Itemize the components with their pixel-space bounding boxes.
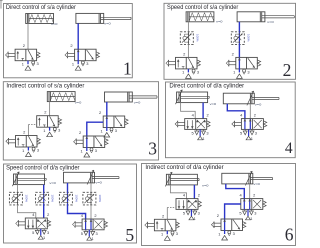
svg-text:5: 5 (192, 130, 194, 135)
svg-text:Direct control of d/a cylinder: Direct control of d/a cylinder (169, 83, 244, 90)
svg-text:3: 3 (233, 231, 235, 236)
svg-text:2: 2 (198, 193, 200, 198)
svg-text:v=0: v=0 (75, 100, 82, 104)
svg-text:1: 1 (161, 232, 163, 237)
svg-text:1: 1 (233, 70, 235, 75)
svg-text:2: 2 (47, 212, 49, 217)
svg-text:v=0: v=0 (253, 182, 260, 186)
svg-text:1: 1 (22, 62, 24, 67)
svg-text:3: 3 (247, 69, 249, 74)
svg-text:100%: 100% (246, 34, 250, 42)
svg-text:5: 5 (32, 230, 34, 235)
svg-text:3: 3 (197, 69, 199, 74)
svg-text:2: 2 (207, 113, 209, 118)
svg-text:100%: 100% (98, 195, 102, 203)
svg-text:v=0: v=0 (104, 21, 111, 25)
svg-text:1: 1 (81, 148, 83, 153)
svg-text:3: 3 (198, 210, 200, 215)
svg-text:6: 6 (285, 224, 294, 244)
svg-text:1: 1 (194, 216, 196, 221)
svg-text:Indirect control of s/a cylind: Indirect control of s/a cylinder (6, 82, 84, 89)
svg-text:1: 1 (202, 136, 204, 141)
svg-text:5: 5 (183, 210, 185, 215)
svg-text:2: 2 (254, 113, 256, 118)
svg-text:3: 3 (86, 61, 88, 66)
svg-text:3: 3 (37, 147, 39, 152)
svg-text:1: 1 (43, 128, 45, 133)
svg-text:Speed control of d/a cylinder: Speed control of d/a cylinder (6, 165, 79, 172)
svg-text:3: 3 (95, 148, 97, 153)
svg-text:1: 1 (251, 136, 253, 141)
svg-text:3: 3 (206, 130, 208, 135)
svg-text:3: 3 (255, 130, 257, 135)
svg-text:3: 3 (254, 210, 256, 215)
svg-text:v=0: v=0 (95, 181, 102, 185)
svg-text:2: 2 (253, 193, 255, 198)
svg-text:Indirect control of d/a cylind: Indirect control of d/a cylinder (145, 164, 223, 171)
svg-text:v=0: v=0 (255, 103, 262, 107)
svg-text:4: 4 (285, 140, 293, 157)
svg-text:5: 5 (125, 225, 134, 245)
svg-text:100%: 100% (51, 195, 55, 203)
svg-text:v=0: v=0 (49, 181, 56, 185)
svg-text:1: 1 (72, 62, 74, 67)
svg-text:1: 1 (218, 231, 220, 236)
svg-text:1: 1 (123, 59, 132, 79)
svg-text:1: 1 (182, 70, 184, 75)
svg-text:v=0: v=0 (51, 22, 58, 26)
svg-text:v=0: v=0 (202, 183, 209, 187)
svg-text:v=0: v=0 (210, 102, 217, 106)
svg-text:3: 3 (148, 138, 157, 158)
svg-text:100%: 100% (24, 195, 28, 203)
svg-text:2: 2 (283, 60, 292, 80)
svg-text:v=0: v=0 (267, 20, 274, 24)
svg-text:1: 1 (250, 216, 252, 221)
svg-text:2: 2 (94, 213, 96, 218)
svg-text:3: 3 (115, 128, 117, 133)
svg-text:1: 1 (101, 128, 103, 133)
svg-text:v=0: v=0 (216, 19, 223, 23)
svg-text:3: 3 (58, 128, 60, 133)
svg-text:3: 3 (47, 230, 49, 235)
svg-text:v=0: v=0 (134, 101, 141, 105)
svg-text:5: 5 (240, 130, 242, 135)
svg-text:100%: 100% (195, 34, 199, 42)
svg-text:3: 3 (176, 231, 178, 236)
svg-text:1: 1 (43, 235, 45, 240)
svg-text:Direct control of s/a cylinder: Direct control of s/a cylinder (6, 4, 76, 11)
svg-text:5: 5 (81, 231, 83, 236)
svg-text:1: 1 (92, 236, 94, 241)
svg-text:3: 3 (37, 61, 39, 66)
svg-text:100%: 100% (74, 195, 78, 203)
svg-text:5: 5 (239, 210, 241, 215)
svg-text:1: 1 (22, 148, 24, 153)
svg-text:3: 3 (96, 231, 98, 236)
svg-text:Speed control of s/a cylinder: Speed control of s/a cylinder (167, 4, 238, 11)
